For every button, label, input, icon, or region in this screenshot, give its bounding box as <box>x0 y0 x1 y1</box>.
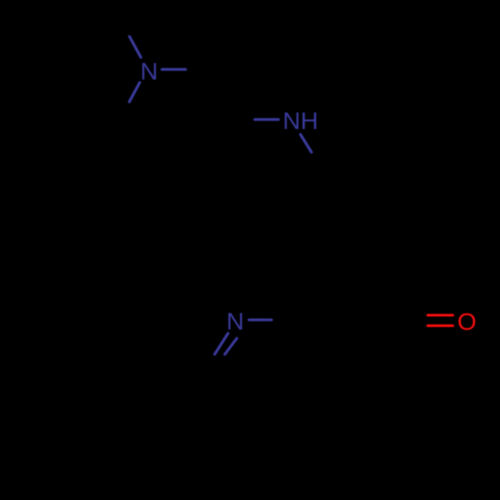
svg-text:O: O <box>457 309 476 336</box>
svg-text:N: N <box>226 309 244 336</box>
svg-text:N: N <box>140 58 158 85</box>
svg-text:NH: NH <box>283 108 318 135</box>
